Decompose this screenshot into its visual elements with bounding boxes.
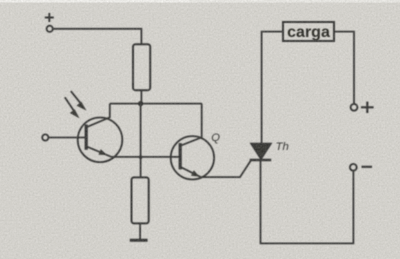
wire bus at node A bbox=[110, 103, 202, 105]
thyristor Th bbox=[250, 144, 272, 160]
wire node A down to R2 bbox=[140, 104, 142, 178]
wire T1 emitter to Q base bbox=[112, 156, 180, 158]
resistor R1 bbox=[133, 44, 150, 90]
transistor T1 (phototransistor) bbox=[78, 117, 123, 162]
load box (carga) bbox=[283, 22, 334, 41]
wire Q collector up to bus bbox=[201, 104, 203, 138]
wire Q emitter to thyristor gate bbox=[201, 160, 252, 177]
wire carga to + terminal bbox=[334, 32, 354, 104]
node junction dot on base line bbox=[139, 155, 143, 159]
transistor Q bbox=[171, 136, 214, 179]
light arrow 2 bbox=[65, 97, 80, 118]
wire R2 bottom to ground bbox=[139, 223, 141, 239]
wire base input to T1 bbox=[49, 137, 86, 139]
wire T1 collector up to bus bbox=[109, 104, 111, 118]
node A junction dot bbox=[138, 101, 143, 106]
terminal + (top left) bbox=[45, 13, 54, 32]
wire thyristor anode rail up to carga bbox=[262, 32, 283, 143]
wire from + terminal to R1 top bbox=[53, 29, 141, 44]
terminal (base input) bbox=[42, 134, 48, 140]
wire R1 bottom to node A bbox=[140, 90, 142, 103]
wire thyristor cathode down and to right rail bbox=[261, 160, 354, 243]
ground bbox=[130, 239, 148, 242]
resistor R2 bbox=[132, 177, 149, 223]
terminal - (right) bbox=[350, 164, 372, 171]
terminal + (right) bbox=[351, 102, 374, 113]
light arrow 1 bbox=[71, 91, 87, 111]
